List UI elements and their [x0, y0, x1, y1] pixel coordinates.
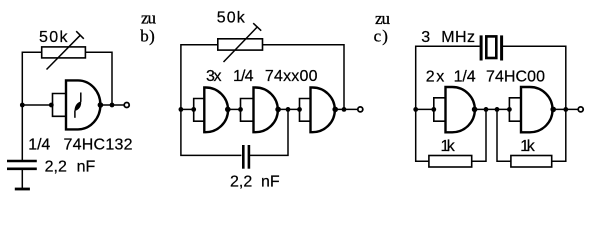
- resistor R1 1k: [429, 156, 472, 168]
- node: U1 output dot: [98, 102, 104, 108]
- node: junction input/left vertical: [20, 103, 25, 108]
- svg-text:2,2: 2,2: [45, 159, 67, 176]
- wire: capacitor to ground: [21, 170, 23, 189]
- svg-text:2x: 2x: [426, 69, 445, 86]
- svg-text:74HC00: 74HC00: [486, 69, 545, 86]
- node: junction output/crystal vertical (c): [563, 107, 568, 112]
- wire: top feedback left segment (b): [181, 45, 218, 110]
- node: gate c1 output dot: [472, 107, 478, 113]
- svg-text:zu: zu: [141, 8, 157, 27]
- label zu c): [374, 9, 391, 45]
- svg-text:1/4: 1/4: [233, 68, 254, 85]
- wire: top crystal right segment: [503, 46, 566, 109]
- wire: R2 left leg: [497, 109, 511, 161]
- resistor R2 1k: [511, 156, 552, 168]
- nand gate b3: [311, 88, 335, 133]
- node: gate b3 output dot: [332, 107, 338, 113]
- wire: c1 out to c2 in: [475, 108, 510, 110]
- node: junction R2 left branch: [495, 107, 500, 112]
- svg-text:1/4: 1/4: [28, 137, 50, 154]
- node: junction capacitor branch (b): [286, 107, 291, 112]
- svg-text:nF: nF: [261, 174, 280, 191]
- label zu b): [140, 8, 156, 45]
- svg-text:1k: 1k: [520, 138, 536, 155]
- wire: bottom cap right segment (b): [250, 109, 288, 155]
- wire: top feedback right segment (b): [263, 45, 345, 110]
- nand gate b2: [254, 88, 278, 133]
- svg-text:MHz: MHz: [441, 29, 475, 46]
- node: junction input/bracket c1: [431, 107, 436, 112]
- wire: input net segment (b): [181, 108, 194, 110]
- wire: top crystal left segment: [416, 46, 480, 109]
- node: junction output/feedback vertical: [110, 103, 115, 108]
- svg-text:74HC132: 74HC132: [64, 137, 133, 154]
- wire: input bracket of gate b3: [300, 99, 311, 122]
- svg-text:c): c): [374, 26, 388, 45]
- svg-text:50k: 50k: [39, 29, 69, 46]
- wire: b2 out to b3 in: [278, 108, 299, 110]
- node: junction input/bracket c2: [507, 107, 512, 112]
- svg-text:3x: 3x: [206, 68, 222, 85]
- node: junction input/left vertical (c): [413, 107, 418, 112]
- node: junction bracket g2 (b): [238, 107, 243, 112]
- svg-text:74xx00: 74xx00: [265, 68, 318, 85]
- wire: R1 left leg: [416, 109, 429, 161]
- wire: R2 right leg: [552, 109, 566, 161]
- node: junction bracket g3 (b): [297, 107, 302, 112]
- svg-text:2,2: 2,2: [230, 174, 252, 191]
- schmitt hysteresis symbol inside U1: [75, 93, 81, 118]
- wire: c2 out to terminal: [553, 108, 578, 110]
- terminal: output open circle (b): [358, 107, 363, 112]
- nand gate c2: [521, 87, 553, 132]
- wire: b1 out to b2 in: [228, 108, 241, 110]
- part label 1/4 74HC132: [28, 137, 132, 154]
- node: gate c2 output dot: [550, 107, 556, 113]
- terminal: output open circle: [124, 103, 129, 108]
- value label 2,2 nF (C1): [45, 159, 96, 176]
- value label 3 MHz (X1): [421, 29, 475, 46]
- wire: input bracket of gate c1: [434, 98, 446, 121]
- capacitor C2 2,2 nF: [243, 145, 249, 169]
- value label 2,2 nF (C2): [230, 174, 280, 191]
- wire: top feedback left segment: [22, 52, 42, 105]
- wire: input bracket of gate c2: [509, 98, 521, 121]
- wire: input bracket of gate b1: [194, 99, 205, 122]
- wire: output net segment: [100, 104, 123, 106]
- svg-text:zu: zu: [375, 9, 391, 28]
- node: junction input/left vertical (b): [179, 107, 184, 112]
- wire: input net segment (c): [416, 108, 434, 110]
- capacitor C1 2,2 nF: [7, 161, 37, 169]
- node: junction input/bracket: [49, 103, 54, 108]
- wire: input bracket of U1 (both gate inputs tied): [53, 94, 67, 117]
- node: gate b1 output dot: [225, 107, 231, 113]
- nand gate c1: [446, 87, 475, 132]
- svg-text:nF: nF: [77, 159, 96, 176]
- node: junction input/bracket g1 (b): [191, 107, 196, 112]
- nand gate U1 1/4 74HC132 (Schmitt): [66, 80, 100, 129]
- potentiometer P2 50k: [218, 23, 263, 62]
- wire: vertical to capacitor C1: [21, 105, 23, 160]
- wire: input bracket of gate b2: [241, 99, 254, 122]
- wire: top feedback right segment: [85, 52, 112, 105]
- part label 3x 1/4 74xx00: [206, 68, 318, 85]
- ground: [15, 188, 30, 191]
- svg-text:1/4: 1/4: [454, 69, 476, 86]
- wire: bottom cap left segment (b): [181, 109, 242, 155]
- wire: input net segment: [22, 104, 52, 106]
- nand gate b1: [204, 88, 228, 133]
- node: gate b2 output dot: [275, 107, 281, 113]
- svg-text:50k: 50k: [217, 10, 246, 27]
- potentiometer P1 50k: [42, 31, 86, 69]
- node: junction output/feedback vertical (b): [342, 107, 347, 112]
- wire: R1 right leg: [472, 109, 486, 161]
- crystal X1 3 MHz: [481, 35, 502, 60]
- wire: b3 out to terminal: [335, 108, 357, 110]
- node: junction R1 right branch: [484, 107, 489, 112]
- svg-text:b): b): [140, 26, 155, 45]
- part label 2x 1/4 74HC00: [426, 69, 545, 86]
- terminal: output open circle (c): [578, 107, 583, 112]
- svg-text:3: 3: [421, 29, 430, 46]
- svg-text:1k: 1k: [441, 138, 456, 155]
